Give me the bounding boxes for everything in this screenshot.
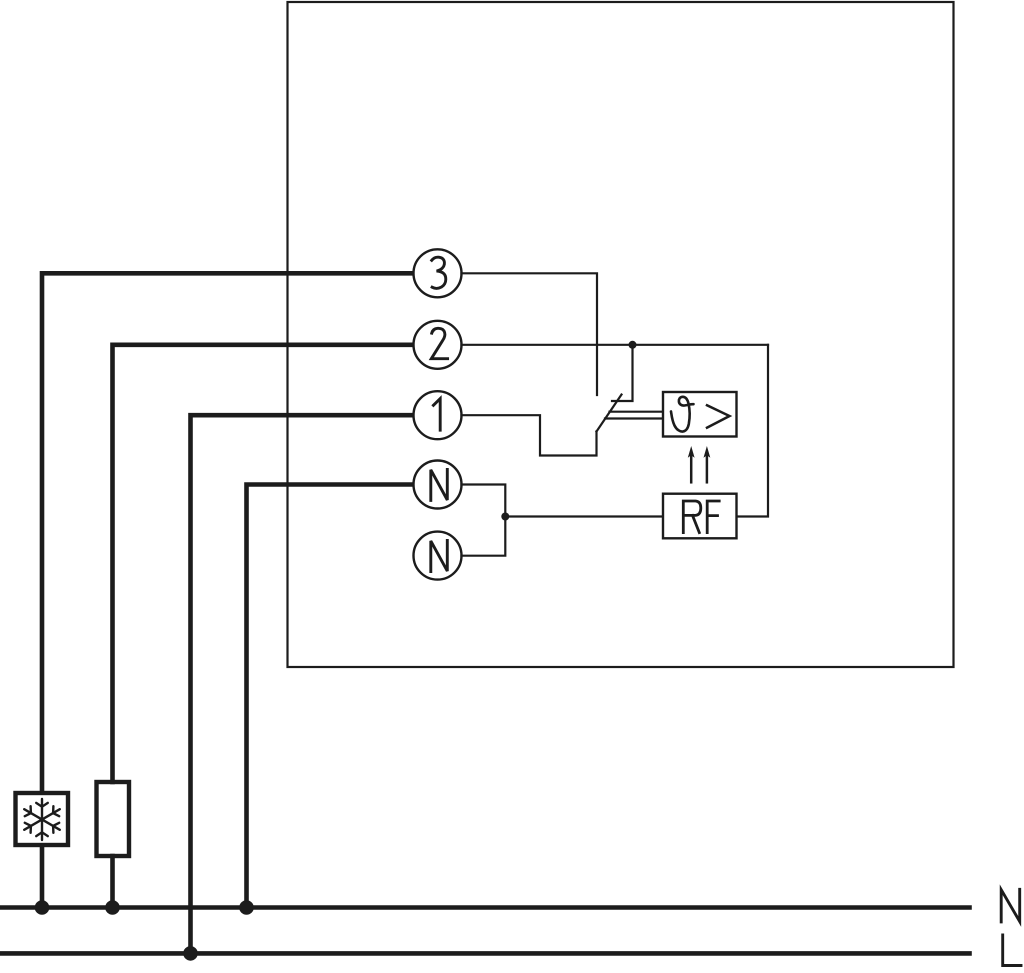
label N (bus) — [1001, 889, 1020, 922]
signal arrow 2 (RF to thermostat) — [706, 455, 709, 482]
terminal circle N (second) — [414, 532, 462, 580]
L bus — [0, 951, 970, 956]
terminal circle 1 — [414, 391, 462, 439]
label 2 — [431, 328, 447, 358]
label RF — [683, 501, 719, 533]
actuator double line to thermostat — [610, 411, 664, 413]
label 1 — [433, 399, 440, 431]
greater-than symbol — [707, 405, 730, 427]
terminal circle 2 — [414, 321, 462, 369]
device outline rectangle — [288, 2, 954, 667]
wire 2 supply (thick, left) — [113, 345, 414, 782]
label N — [431, 469, 448, 500]
signal arrow 1 (RF to thermostat) — [690, 455, 693, 482]
junction dot wireN/N bus — [239, 900, 254, 915]
load resistor rectangle — [97, 782, 130, 856]
node junction on N wire — [501, 513, 509, 521]
thermostat box U1 — [663, 392, 737, 437]
label L (bus) — [1003, 935, 1021, 966]
theta glyph — [671, 397, 694, 432]
label 3 — [432, 257, 446, 288]
junction dot load/N bus — [105, 900, 120, 915]
wire from node down to switch contact L-hook — [612, 345, 633, 401]
wire 1 supply (thick, left) to L bus — [191, 415, 414, 953]
wire from terminal 3 to switch contact (thin) — [462, 273, 598, 395]
wire from terminal N to node — [462, 485, 506, 556]
wire from frost box to N bus — [40, 846, 45, 908]
terminal circle N (first) — [414, 461, 462, 509]
wire right vertical from wire2 down to RF box — [737, 345, 769, 517]
label N — [431, 541, 448, 572]
junction dot wire3/N bus — [35, 900, 50, 915]
wire from terminal 2 to right side (thin) — [462, 344, 769, 346]
node junction on wire 2 — [629, 341, 637, 349]
wire from terminal 1 to switch pivot — [462, 415, 597, 455]
frost protection box — [16, 793, 69, 845]
junction dot wire1/L bus — [183, 946, 198, 961]
snowflake symbol — [24, 799, 60, 840]
N bus — [0, 905, 970, 910]
wire from node to RF box — [505, 515, 663, 517]
wire N supply (thick, left) to N bus — [247, 485, 414, 908]
RF box — [663, 494, 737, 539]
terminal circle 3 — [414, 249, 462, 297]
wire from load to N bus — [110, 856, 115, 908]
switch blade — [597, 395, 622, 432]
wire 3 supply (thick, left) — [42, 273, 414, 792]
